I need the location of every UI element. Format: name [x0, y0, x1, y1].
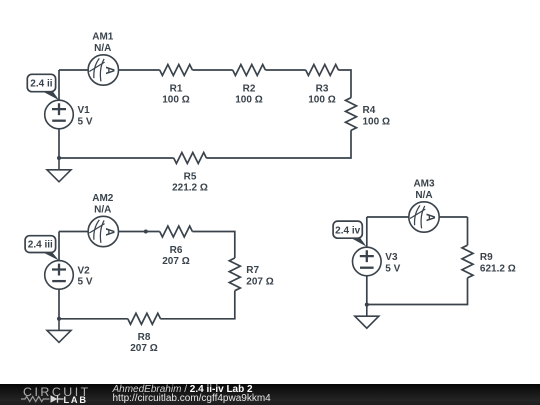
node A junction dot — [57, 156, 61, 160]
svg-text:V1: V1 — [78, 105, 91, 116]
svg-text:V3: V3 — [385, 252, 398, 263]
wire R9 to bottom rail circuit 3 — [367, 278, 468, 305]
svg-text:N/A: N/A — [415, 190, 432, 201]
svg-text:207 Ω: 207 Ω — [162, 256, 189, 267]
wire top rail circuit 3 — [367, 216, 468, 218]
wire R8 to node B — [59, 318, 128, 320]
svg-text:R3: R3 — [316, 83, 329, 94]
svg-text:V2: V2 — [78, 265, 91, 276]
svg-text:207 Ω: 207 Ω — [246, 276, 273, 287]
annotation balloon 2.4 iv — [333, 221, 366, 247]
svg-text:AM2: AM2 — [92, 193, 114, 204]
resistor R4 — [346, 98, 357, 131]
resistor R1 — [160, 65, 193, 76]
label V3 value — [385, 252, 400, 274]
label V1 value — [78, 105, 93, 127]
svg-text:2.4 iii: 2.4 iii — [28, 240, 53, 251]
wire top rail circuit 1 — [59, 69, 160, 71]
svg-text:R5: R5 — [184, 172, 197, 183]
svg-text:621.2 Ω: 621.2 Ω — [480, 264, 516, 275]
label R1 value — [162, 83, 189, 105]
wire top rail circuit 2 — [59, 231, 160, 233]
svg-text:R7: R7 — [246, 265, 259, 276]
svg-text:R8: R8 — [138, 332, 151, 343]
svg-text:LAB: LAB — [64, 395, 88, 405]
wire R4 to bottom rail left — [206, 130, 351, 158]
node D junction dot — [365, 303, 369, 307]
resistor R5 — [174, 153, 207, 164]
node C junction dot (AM2 output) — [144, 230, 148, 234]
voltage source V2 — [45, 261, 74, 290]
node B junction dot — [57, 317, 61, 321]
label R7 value — [246, 265, 273, 288]
wire V3 branch vertical — [366, 217, 368, 305]
label R9 value — [480, 252, 516, 275]
svg-text:221.2 Ω: 221.2 Ω — [172, 183, 208, 194]
ground circuit 1 — [47, 158, 71, 182]
label AM3 — [413, 179, 435, 201]
annotation balloon 2.4 ii — [27, 74, 59, 100]
wire R1-R2 — [192, 69, 232, 71]
svg-text:2.4 iv: 2.4 iv — [335, 225, 360, 236]
svg-text:5 V: 5 V — [78, 277, 93, 288]
voltage source V3 — [353, 247, 382, 276]
ground circuit 3 — [355, 305, 379, 329]
wire R6 to corner and R7 — [192, 232, 234, 259]
svg-text:100 Ω: 100 Ω — [235, 94, 262, 105]
svg-text:A: A — [103, 228, 115, 236]
resistor R7 — [229, 258, 240, 291]
resistor R9 — [462, 245, 473, 278]
svg-text:100 Ω: 100 Ω — [308, 94, 335, 105]
wire V2 branch vertical — [58, 232, 60, 319]
ground circuit 2 — [47, 319, 71, 343]
footer bar — [0, 384, 540, 405]
wire R7 to bottom rail circuit 2 — [160, 291, 235, 319]
label V2 value — [78, 265, 93, 287]
credit url — [113, 394, 271, 404]
svg-text:207 Ω: 207 Ω — [130, 343, 157, 354]
resistor R6 — [160, 226, 193, 237]
svg-text:R6: R6 — [170, 245, 183, 256]
wire R2-R3 — [265, 69, 305, 71]
resistor R8 — [128, 313, 161, 324]
voltage source V1 — [45, 100, 74, 129]
svg-text:2.4 ii: 2.4 ii — [30, 79, 52, 90]
svg-text:100 Ω: 100 Ω — [162, 94, 189, 105]
svg-text:AM1: AM1 — [92, 32, 114, 43]
CircuitLab logo — [20, 384, 120, 405]
label R3 value — [308, 83, 335, 105]
svg-text:R1: R1 — [170, 83, 183, 94]
annotation balloon 2.4 iii — [25, 236, 59, 261]
ammeter AM3 — [409, 202, 439, 232]
label R2 value — [235, 83, 262, 105]
label AM2 — [92, 193, 114, 215]
svg-text:AM3: AM3 — [413, 179, 435, 190]
svg-text:100 Ω: 100 Ω — [363, 116, 390, 127]
label R8 value — [130, 332, 157, 354]
svg-text:R2: R2 — [243, 83, 256, 94]
resistor R3 — [306, 65, 339, 76]
svg-text:R9: R9 — [480, 252, 493, 263]
wire R3 to R4 corner — [338, 70, 351, 98]
ammeter AM2 — [88, 216, 118, 246]
svg-text:5 V: 5 V — [385, 263, 400, 274]
label R6 value — [162, 245, 189, 267]
label R4 value — [363, 105, 390, 128]
wire R5 to node A — [59, 157, 174, 159]
svg-text:5 V: 5 V — [78, 116, 93, 127]
resistor R2 — [233, 65, 266, 76]
svg-text:N/A: N/A — [94, 204, 111, 215]
label R5 value — [172, 172, 208, 194]
wire V1 branch vertical — [58, 70, 60, 158]
label AM1 — [92, 32, 114, 54]
wire corner to R9 — [467, 217, 469, 245]
svg-text:N/A: N/A — [94, 43, 111, 54]
svg-text:A: A — [424, 213, 436, 221]
ammeter AM1 — [88, 55, 118, 85]
svg-text:A: A — [103, 66, 115, 74]
svg-text:R4: R4 — [363, 105, 376, 116]
credit text — [113, 385, 253, 395]
